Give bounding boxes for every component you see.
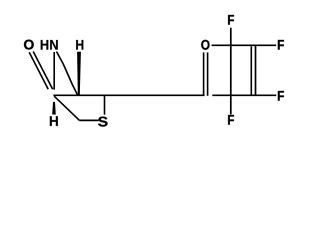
atom O1 (ureido carbonyl oxygen) [24, 40, 34, 50]
bond N1-C2 vertical [53, 52, 55, 90]
bond C=O2 ester carbonyl double bond line 2 [207, 52, 209, 95]
wedge bond C6a-H bottom [52, 102, 56, 115]
bond carbonyl to ring bottom side to F3 [212, 94, 276, 96]
bond ring right side inner double line [250, 46, 252, 94]
atom H (bottom stereo hydrogen) [50, 116, 58, 126]
atom F2 (right upper fluorine) [278, 40, 284, 50]
atom F3 (right lower fluorine) [278, 91, 284, 101]
bond O2 to ring top side to F2 [212, 44, 277, 46]
bond C2=O1 double bond line 1 [29, 52, 48, 89]
atom S (thioether sulfur) [98, 117, 107, 127]
bond S-C vertical [104, 96, 106, 115]
atom F1 (top fluorine) [228, 15, 234, 25]
atom F4 (bottom fluorine) [228, 115, 234, 125]
atom O2 (ester oxygen) [201, 40, 209, 50]
bond ring right side [255, 45, 257, 95]
bond CH2-S horizontal [80, 119, 99, 121]
atom N1 label HN [41, 40, 58, 50]
wedge bond C3a-H top [77, 52, 81, 95]
bond C6a-C6 diagonal to CH2 [54, 96, 79, 120]
bond C2=O1 double bond line 2 [33, 52, 53, 90]
bond chain horizontal C3a to carbonyl [53, 94, 204, 96]
bond N1-C3a diagonal [57, 52, 78, 96]
bond C=O2 ester carbonyl double bond line 1 [203, 52, 205, 95]
atom H (top stereo hydrogen) [76, 40, 83, 50]
bond F1 through ring left side to F4 [230, 28, 232, 115]
